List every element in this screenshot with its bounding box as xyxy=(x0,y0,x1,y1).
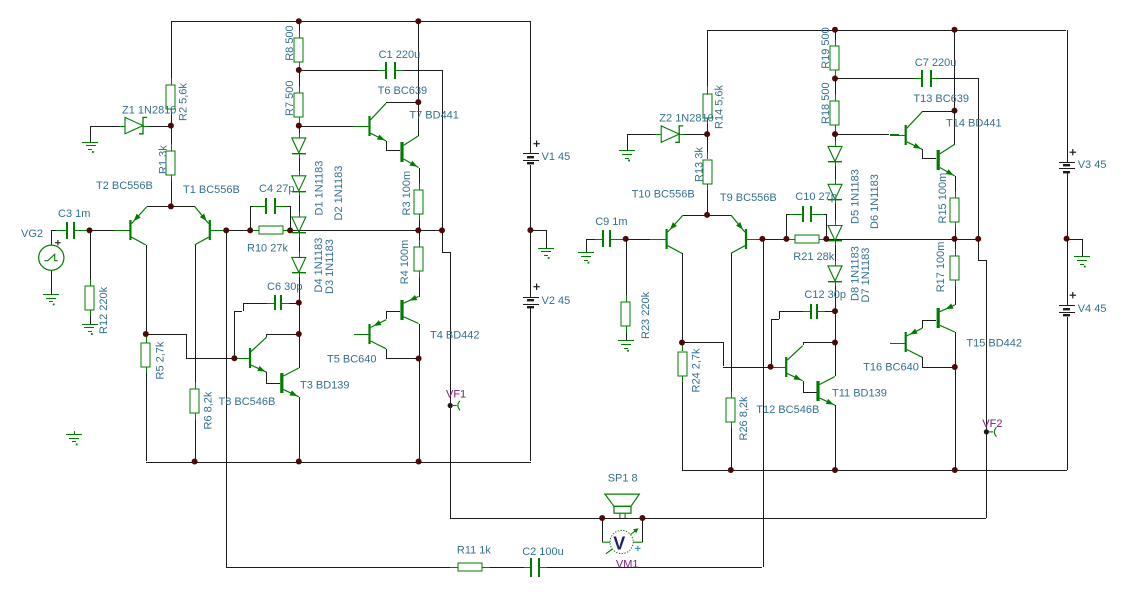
right wire V2 to bottom rail xyxy=(1067,317,1068,470)
left junction at 298.8,461.5 xyxy=(296,459,302,465)
left wire T8 emitter to T3 base xyxy=(266,372,280,384)
resistor R23 xyxy=(621,295,630,333)
wire C2 to right feedback corner xyxy=(540,567,762,568)
plus sign V2 xyxy=(533,284,539,290)
left junction at 418.3,21.2 xyxy=(415,18,421,24)
svg-text:C6 30p: C6 30p xyxy=(267,281,302,293)
transistor T8 BC546B xyxy=(234,337,267,372)
svg-text:R15 100m: R15 100m xyxy=(937,173,949,224)
svg-text:T16 BC640: T16 BC640 xyxy=(863,362,919,374)
voltmeter VM1 xyxy=(602,528,642,554)
right wire R2-R1 link xyxy=(707,117,708,159)
left junction at 298.8,21.2 xyxy=(296,18,302,24)
right wire T5 emitter to T4 base xyxy=(922,320,936,328)
svg-text:R8 500: R8 500 xyxy=(284,25,296,60)
left wire C3 to base node xyxy=(74,230,90,231)
ground battery center left xyxy=(538,248,554,259)
svg-text:D3 1N1183: D3 1N1183 xyxy=(324,239,336,294)
ground below R12 xyxy=(82,324,98,335)
left wire center tap ground stub xyxy=(530,230,547,248)
right wire T6 base xyxy=(835,134,889,135)
right wire chain R8 top xyxy=(835,30,836,47)
right junction at 89.5,230.4 xyxy=(623,236,629,242)
right wire V1 to center tap xyxy=(1067,173,1068,305)
svg-text:T9 BC556B: T9 BC556B xyxy=(720,192,777,204)
capacitor C9 xyxy=(595,230,618,247)
right wire mid rail xyxy=(762,239,978,240)
right wire C4 left corner xyxy=(786,214,789,239)
right wire C6 left branch xyxy=(771,311,807,367)
left wire R2 column top xyxy=(171,21,172,85)
wire feedback up to T9 base xyxy=(763,239,764,567)
transistor T5 BC640 xyxy=(354,320,386,349)
left wire chain D2-D3 xyxy=(299,192,300,217)
left wire T6 base xyxy=(299,126,353,127)
left wire VG2 to ground xyxy=(51,270,52,294)
left wire T8 collector link xyxy=(266,334,298,337)
probe dot VF2 xyxy=(984,429,989,434)
right wire C1 left xyxy=(835,78,922,79)
capacitor C10 xyxy=(788,206,826,222)
left wire mid rail xyxy=(226,230,442,231)
battery V1 xyxy=(523,153,539,164)
resistor R19 xyxy=(830,40,839,77)
left wire T5 emitter to T4 base xyxy=(386,311,400,319)
right junction at 418.3,230.4 xyxy=(952,236,958,242)
resistor R15 xyxy=(950,191,959,229)
right junction at 442,230.4 xyxy=(975,236,981,242)
right wire chain R7 bottom xyxy=(835,125,836,146)
svg-text:V1 45: V1 45 xyxy=(542,151,571,163)
resistor R21 xyxy=(787,235,827,243)
right wire T1 collector down xyxy=(731,253,732,397)
left wire T1 collector down xyxy=(195,245,196,389)
svg-text:R2 5,6k: R2 5,6k xyxy=(178,83,190,121)
transistor T13 BC639 xyxy=(890,112,922,150)
ground floating left xyxy=(66,431,82,445)
left junction at 418.3,102.1 xyxy=(415,99,421,105)
diode D1 xyxy=(292,133,306,158)
resistor R3 xyxy=(414,183,423,220)
plus sign VG2 xyxy=(55,240,61,246)
left wire source to C3 xyxy=(51,230,56,245)
plus sign V3 xyxy=(1070,149,1076,155)
right wire chain D1-D2 xyxy=(835,162,836,184)
left wire zener ground net xyxy=(90,126,124,142)
left wire chain R8 top xyxy=(299,21,300,38)
left wire R4 to T4 emitter xyxy=(419,271,420,297)
left wire C4 right corner xyxy=(287,206,291,231)
left wire C4 left corner xyxy=(250,206,253,231)
capacitor C6 xyxy=(267,295,289,310)
svg-text:C7 220u: C7 220u xyxy=(915,57,957,69)
resistor R1 xyxy=(166,144,175,181)
left wire R6 bottom xyxy=(195,413,196,461)
svg-text:R5 2,7k: R5 2,7k xyxy=(155,341,167,379)
svg-text:T4 BD442: T4 BD442 xyxy=(430,330,480,342)
right wire T1 base to mid rail xyxy=(747,239,762,240)
transistor T9 BC556B xyxy=(731,215,762,253)
left junction at 298.8,334 xyxy=(296,331,302,337)
svg-text:C3 1m: C3 1m xyxy=(58,208,90,220)
ground at C9 input xyxy=(578,252,594,264)
left wire chain D3-D4 xyxy=(299,230,300,257)
svg-text:T3 BD139: T3 BD139 xyxy=(300,380,350,392)
left junction at 234.4,358.3 xyxy=(231,355,237,361)
svg-text:T15 BD442: T15 BD442 xyxy=(966,338,1022,350)
svg-text:T10 BC556B: T10 BC556B xyxy=(632,189,695,201)
left wire T7 emitter to R3 xyxy=(419,168,420,190)
right wire T8 collector link xyxy=(803,342,835,345)
transistor T7 BD441 xyxy=(400,136,418,168)
right wire V+ column xyxy=(954,30,955,111)
left junction at 145.8,334 xyxy=(143,331,149,337)
left wire C3 left green lead xyxy=(56,230,67,231)
right wire bottom rail xyxy=(682,470,1067,471)
capacitor C12 xyxy=(803,304,825,319)
left wire bottom rail xyxy=(146,462,531,463)
right wire R1 to emitter rail xyxy=(707,183,708,215)
right junction at 418.6,358.5 xyxy=(952,364,958,370)
left wire T7 collector up xyxy=(418,102,419,136)
right wire T6 collector stub xyxy=(922,111,923,112)
right junction at 298.8,70 xyxy=(832,76,838,82)
left junction at 194.6,461.5 xyxy=(192,459,198,465)
svg-text:C1 220u: C1 220u xyxy=(379,49,421,61)
left wire V+ column xyxy=(418,21,419,102)
svg-text:R18 500: R18 500 xyxy=(820,82,832,124)
right wire T8 base net xyxy=(682,342,771,368)
svg-text:D1 1N1183: D1 1N1183 xyxy=(314,161,326,216)
svg-text:VF2: VF2 xyxy=(982,418,1002,430)
diode D3 xyxy=(292,212,306,237)
left wire chain R8-R7 xyxy=(299,62,300,93)
right wire input ground stem xyxy=(586,239,587,253)
svg-text:T11 BD139: T11 BD139 xyxy=(832,388,887,400)
transistor T11 BD139 xyxy=(816,377,835,406)
left wire V2 to bottom rail xyxy=(530,308,531,461)
right junction at 194.6,461.5 xyxy=(728,467,734,473)
left junction at 530.4,230.1 xyxy=(527,227,533,233)
probe VF2 fork xyxy=(989,427,997,436)
left wire T2 collector down xyxy=(146,245,147,334)
left junction at 418.3,230.4 xyxy=(415,227,421,233)
right wire base node to T2 xyxy=(626,239,650,240)
resistor R7 xyxy=(294,86,303,123)
wire VM1 right lead xyxy=(642,518,643,542)
resistor R8 xyxy=(294,31,303,69)
left wire T6 collector stub xyxy=(386,102,387,103)
right wire zener ground net xyxy=(627,134,661,150)
svg-text:V4 45: V4 45 xyxy=(1078,303,1107,315)
left wire top supply rail xyxy=(171,21,531,22)
wire VM1 left lead xyxy=(602,518,603,542)
left junction at 298.8,70 xyxy=(296,67,302,73)
right junction at 145.8,334 xyxy=(679,340,685,346)
svg-text:T6 BC639: T6 BC639 xyxy=(378,85,428,97)
right wire output jog xyxy=(978,239,987,518)
junction VM1 left terminal xyxy=(599,515,605,521)
resistor R12 xyxy=(85,279,94,316)
left wire C6 right link xyxy=(285,303,299,304)
right wire T7 emitter to R3 xyxy=(955,176,956,198)
right junction at 250.2,230.4 xyxy=(783,236,789,242)
probe VF1 fork xyxy=(453,401,460,410)
left junction at 442,230.4 xyxy=(439,227,445,233)
svg-text:R19 500: R19 500 xyxy=(820,27,832,69)
right junction at 234.4,358.3 xyxy=(768,364,774,370)
resistor R18 xyxy=(830,94,839,132)
left junction at 290.1,230.4 xyxy=(287,227,293,233)
junction VM1 right terminal xyxy=(639,515,645,521)
resistor R26 xyxy=(726,391,735,428)
right wire T8 emitter to T3 base xyxy=(803,381,817,393)
wire feedback from T1 base xyxy=(226,230,450,568)
right wire C9 input corner xyxy=(586,239,603,240)
right wire T4 collector down xyxy=(955,332,956,470)
resistor R14 xyxy=(703,86,712,124)
left channel amplifier xyxy=(51,18,554,518)
left wire R5 top xyxy=(146,334,147,343)
svg-text:V: V xyxy=(613,533,625,553)
svg-text:T12 BC546B: T12 BC546B xyxy=(756,404,819,416)
right wire T7 collector up xyxy=(954,111,955,145)
left wire T3 emitter down xyxy=(299,397,300,462)
left wire T1 base to mid rail xyxy=(211,230,226,231)
speaker SP1 xyxy=(605,494,639,518)
left wire C6 left branch xyxy=(234,303,271,359)
left wire T6 collector link xyxy=(386,102,418,103)
diode D7 xyxy=(828,220,842,245)
right wire T6 collector link xyxy=(922,111,954,112)
left wire output jog xyxy=(442,230,451,518)
left junction at 170.9,125.6 xyxy=(168,123,174,129)
right wire top supply rail xyxy=(707,30,1066,31)
svg-text:Z1 1N2810: Z1 1N2810 xyxy=(122,105,176,117)
left wire chain D1-D2 xyxy=(299,154,300,176)
svg-text:V3 45: V3 45 xyxy=(1078,159,1107,171)
right wire R12 top xyxy=(626,239,627,302)
right wire chain D3-D4 xyxy=(835,239,836,266)
left wire base node to T2 xyxy=(90,230,114,231)
ground at zener Z1 xyxy=(82,142,98,153)
left junction at 298.8,125.6 xyxy=(296,123,302,129)
left junction at 298.8,302.6 xyxy=(296,300,302,306)
left junction at 170.9,206.4 xyxy=(168,203,174,209)
transistor T2 BC556B xyxy=(114,207,147,245)
right wire T6 base green lead xyxy=(890,134,899,135)
capacitor C3 xyxy=(59,222,82,239)
resistor R2 xyxy=(166,78,175,115)
right wire T3 emitter down xyxy=(835,405,836,470)
left wire chain R7 bottom xyxy=(299,116,300,137)
left wire emitter rail xyxy=(147,206,195,207)
resistor R10 xyxy=(251,226,291,234)
resistor R4 xyxy=(414,240,423,278)
left wire C1 right to output xyxy=(395,70,443,230)
transistor T1 BC556B xyxy=(195,207,226,245)
left junction at 418.6,358.5 xyxy=(416,356,422,362)
capacitor C1 xyxy=(378,62,403,79)
svg-text:R21 28k: R21 28k xyxy=(793,251,834,263)
plus sign VM1 xyxy=(635,546,640,551)
right wire center tap ground stub xyxy=(1067,239,1083,257)
svg-text:C12 30p: C12 30p xyxy=(804,289,846,301)
right junction at 298.8,461.5 xyxy=(832,467,838,473)
right wire T5 collector link xyxy=(922,357,954,368)
transistor T14 BD441 xyxy=(937,144,955,176)
svg-text:R23 220k: R23 220k xyxy=(640,291,652,339)
right junction at 170.9,125.6 xyxy=(704,131,710,137)
wire speaker rail xyxy=(450,518,986,519)
left wire R3-R4 node xyxy=(419,213,420,247)
resistor R6 xyxy=(190,382,199,420)
svg-text:C2 100u: C2 100u xyxy=(522,546,564,558)
svg-text:Z2 1N2810: Z2 1N2810 xyxy=(659,113,713,125)
svg-text:R11 1k: R11 1k xyxy=(457,545,492,557)
left junction at 226.2,230.4 xyxy=(223,227,229,233)
svg-text:VM1: VM1 xyxy=(616,559,639,571)
right wire R5 bottom to rail xyxy=(682,376,683,470)
svg-text:R10 27k: R10 27k xyxy=(247,243,288,255)
right wire R3-R4 node xyxy=(955,222,956,256)
resistor R13 xyxy=(703,152,712,190)
battery V2 xyxy=(523,297,539,308)
zener diode Z1 xyxy=(119,117,149,133)
svg-text:C10 27p: C10 27p xyxy=(795,191,837,203)
right wire C4 right corner xyxy=(824,214,827,239)
ground at zener Z2 xyxy=(619,150,635,161)
left wire T8 base net xyxy=(146,334,234,359)
transistor T4 BD442 xyxy=(400,295,418,324)
right junction at 298.8,21.2 xyxy=(832,27,838,33)
left wire zener to R column xyxy=(143,126,171,127)
right junction at 298.8,125.6 xyxy=(832,131,838,137)
svg-text:R13 3k: R13 3k xyxy=(694,147,706,182)
plus sign V4 xyxy=(1070,292,1076,298)
svg-text:T2 BC556B: T2 BC556B xyxy=(96,180,153,192)
battery V4 xyxy=(1059,305,1075,316)
svg-text:R14 5,6k: R14 5,6k xyxy=(714,84,726,129)
resistor R17 xyxy=(950,249,959,286)
left wire T6-T7 link xyxy=(386,141,400,151)
left wire R12 to ground xyxy=(90,310,91,324)
ground below VG2 xyxy=(43,294,59,305)
right junction at 418.3,102.1 xyxy=(952,108,958,114)
svg-text:C9 1m: C9 1m xyxy=(595,216,627,228)
left wire C1 left xyxy=(299,70,386,71)
left wire T5 collector link xyxy=(386,349,418,359)
left junction at 418.6,461.5 xyxy=(416,459,422,465)
ground below R23 xyxy=(618,340,634,352)
resistor R5 xyxy=(141,336,150,373)
right wire chain D4 down xyxy=(835,282,836,376)
capacitor C2 xyxy=(524,558,547,577)
right wire R23 to ground xyxy=(626,326,627,340)
svg-text:R17 100m: R17 100m xyxy=(935,242,947,293)
right junction at 226.2,230.4 xyxy=(759,236,765,242)
left wire R1 to emitter rail xyxy=(171,174,172,206)
svg-text:T13 BC639: T13 BC639 xyxy=(913,93,969,105)
right wire emitter rail xyxy=(683,215,731,216)
capacitor C4 xyxy=(251,198,290,214)
probe dot VF1 xyxy=(448,403,453,408)
right junction at 418.3,21.2 xyxy=(952,27,958,33)
diode D8 xyxy=(828,261,842,286)
right wire chain D2-D3 xyxy=(835,201,836,226)
svg-text:T5 BC640: T5 BC640 xyxy=(327,354,377,366)
svg-text:R6 8,2k: R6 8,2k xyxy=(203,391,215,429)
right wire R6 bottom xyxy=(731,422,732,470)
right wire R4 to T4 emitter xyxy=(955,279,956,305)
svg-text:D5 1N1183: D5 1N1183 xyxy=(850,169,862,224)
svg-text:VF1: VF1 xyxy=(446,389,466,401)
left wire T4 collector down xyxy=(419,324,420,462)
transistor T6 BC639 xyxy=(354,103,386,141)
right wire C1 right to output xyxy=(931,78,979,238)
transistor T16 BC640 xyxy=(890,328,922,357)
svg-text:D2 1N1183: D2 1N1183 xyxy=(333,166,345,221)
right junction at 298.8,302.6 xyxy=(832,308,838,314)
left wire R12 top xyxy=(90,230,91,285)
right junction at 418.6,461.5 xyxy=(952,467,958,473)
svg-text:D7 1N1183: D7 1N1183 xyxy=(860,248,872,303)
left wire chain D4 down xyxy=(299,274,300,368)
right junction at 530.4,230.1 xyxy=(1064,236,1070,242)
svg-text:R1 3k: R1 3k xyxy=(158,145,170,174)
battery V3 xyxy=(1059,162,1075,173)
right channel amplifier xyxy=(578,27,1090,518)
svg-text:R24 2,7k: R24 2,7k xyxy=(690,348,702,393)
left wire T8 base green lead xyxy=(234,358,241,359)
source VG2 xyxy=(39,245,64,270)
zener diode Z2 xyxy=(655,126,685,142)
right wire C3 to base node xyxy=(610,239,626,240)
resistor R24 xyxy=(678,344,687,382)
svg-text:R26 8,2k: R26 8,2k xyxy=(738,396,750,441)
left wire V1 to center tap xyxy=(530,165,531,297)
svg-text:D6 1N1183: D6 1N1183 xyxy=(869,174,881,229)
diode D5 xyxy=(828,141,842,166)
right wire battery branch down xyxy=(1067,30,1068,162)
transistor T12 BC546B xyxy=(770,346,803,381)
left junction at 250.2,230.4 xyxy=(247,227,253,233)
resistor R11 xyxy=(450,563,490,571)
right junction at 298.8,334 xyxy=(832,340,838,346)
svg-text:C4 27p: C4 27p xyxy=(259,183,294,195)
right wire R5 top xyxy=(682,342,683,351)
right wire R2 column top xyxy=(707,30,708,94)
svg-text:V2 45: V2 45 xyxy=(542,295,571,307)
diode D2 xyxy=(292,171,306,196)
capacitor C7 xyxy=(914,70,939,87)
svg-text:SP1 8: SP1 8 xyxy=(608,473,638,485)
left wire T6 base green lead xyxy=(353,126,362,127)
left wire battery branch down xyxy=(530,21,531,153)
left junction at 89.5,230.4 xyxy=(87,227,93,233)
transistor T15 BD442 xyxy=(937,304,955,333)
diode D4 xyxy=(292,252,306,277)
svg-text:T14 BD441: T14 BD441 xyxy=(946,118,1002,130)
svg-text:T7 BD441: T7 BD441 xyxy=(409,110,459,122)
right wire T8 base green lead xyxy=(771,367,778,368)
wire R11 to C2 xyxy=(490,567,531,568)
svg-text:R7 500: R7 500 xyxy=(284,81,296,116)
svg-text:R4 100m: R4 100m xyxy=(399,240,411,285)
right wire chain R8-R7 xyxy=(835,70,836,101)
svg-text:T8 BC546B: T8 BC546B xyxy=(219,396,276,408)
right junction at 170.9,206.4 xyxy=(704,212,710,218)
